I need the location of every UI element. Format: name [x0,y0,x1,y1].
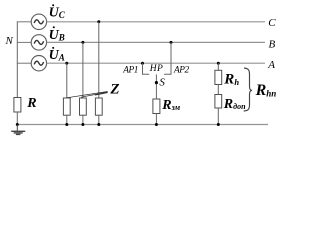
node rail-Z2 [81,123,84,126]
label U_A [49,47,65,63]
svg-text:B: B [269,39,276,51]
label U_C [49,4,66,20]
resistor Rh [215,70,222,84]
resistor Rzm [153,99,160,114]
brace Rh+Rdop [244,68,252,111]
label U_B [49,26,65,43]
svg-text:AP2: AP2 [173,66,190,76]
svg-text:Z: Z [109,81,119,97]
leader Z to Z1 [67,92,108,98]
svg-text:A: A [267,59,275,71]
wire phase line C [47,21,265,23]
wire B down to right contact hook [164,42,171,74]
switch S pivot [155,81,158,84]
resistor R (neutral grounding) [14,98,21,113]
node rail-Rdop [217,123,220,126]
impedance Z2 [80,98,87,115]
wire A to Z1 [66,63,68,98]
wire B to Z2 [82,42,84,98]
ground [11,125,25,135]
wire A to Rh [217,63,219,70]
wire stub N to source C [17,21,32,23]
node rail-Rzm [155,123,158,126]
wire Z1 to rail [66,115,68,124]
node fault tap on A [141,62,144,65]
svg-text:UB: UB [49,28,65,43]
wire C to Z3 [98,22,100,98]
node rail-R [16,123,19,126]
node B-Z2 junction [81,41,84,44]
node A tap for Rh [217,62,220,65]
svg-text:HP: HP [149,64,164,74]
source U_B [31,35,46,50]
svg-text:Rдоп: Rдоп [223,97,246,112]
svg-text:N: N [5,35,14,47]
switch S blade wire [155,74,157,99]
svg-text:Rh: Rh [223,72,239,88]
svg-text:R: R [26,96,36,111]
neutral bus N wire [16,22,18,98]
wire Z3 to rail [98,115,100,124]
node rail-Z3 [97,123,100,126]
leader Z to Z2 [81,92,108,97]
svg-text:UC: UC [49,6,66,21]
resistor Rdop [215,95,222,109]
wire stub N to source B [17,41,32,43]
source U_A [31,56,46,71]
node B tap for AP2 [170,41,173,44]
node C-Z3 junction [97,20,100,23]
svg-text:C: C [268,17,276,29]
node rail-Z1 [65,123,68,126]
svg-text:Rзм: Rзм [161,98,180,113]
wire Rdop to rail [217,108,219,125]
wire R to rail [16,112,18,125]
node A-Z1 junction [65,62,68,65]
wire Rzm to rail [155,114,157,125]
svg-text:Rhn: Rhn [255,82,277,99]
svg-text:UA: UA [49,48,65,63]
wire phase line B [47,41,265,43]
wire Z2 to rail [82,115,84,124]
wire Rh to Rdop [217,85,219,95]
svg-text:AP1: AP1 [122,66,138,76]
wire left contact hook [143,63,150,74]
impedance Z3 [95,98,102,115]
wire stub N to source A [17,62,32,64]
svg-text:S: S [159,76,165,88]
leader Z to Z3 [95,93,108,96]
wire bottom earth rail [17,124,268,126]
impedance Z1 [63,98,70,115]
wire phase line A [47,62,265,64]
source U_C [31,14,46,29]
